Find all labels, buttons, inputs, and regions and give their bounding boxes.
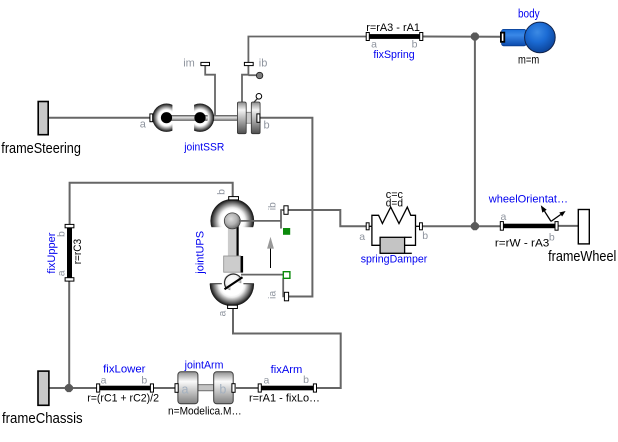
wire frameSteering to jointSSR.a bbox=[48, 117, 150, 119]
svg-text:b: b bbox=[422, 230, 428, 242]
jointArm revolute bar between cylinders bbox=[198, 385, 214, 391]
svg-text:a: a bbox=[359, 231, 365, 243]
jointUPS top ball bbox=[224, 213, 240, 229]
frameWheel fixed frame icon (white) bbox=[578, 210, 589, 244]
svg-text:b: b bbox=[549, 232, 555, 244]
svg-text:r=(rC1 + rC2)/2: r=(rC1 + rC2)/2 bbox=[87, 392, 159, 404]
jointSSR ib connector bbox=[244, 62, 253, 65]
springDamper spring and damper icon bbox=[369, 207, 419, 245]
wheelOrientation fixed rotation bar bbox=[500, 224, 558, 229]
body sphere bbox=[525, 22, 556, 53]
jointUPS green flange square (filled) bbox=[283, 228, 290, 235]
jointSSR revolute cylinder 2 bbox=[251, 102, 260, 134]
fixSpring fixed translation bar bbox=[366, 34, 423, 39]
svg-text:ia: ia bbox=[267, 291, 279, 299]
wire fixSpring.a left and down through ib connector to jointSSR revolute bbox=[242, 37, 366, 104]
junction dot top right bbox=[471, 33, 479, 41]
springDamper connector cap b bbox=[420, 223, 423, 230]
jointUPS internal wire: ball to flange column bbox=[239, 220, 281, 222]
frameChassis fixed frame icon bbox=[38, 371, 49, 405]
svg-text:a: a bbox=[101, 374, 107, 386]
jointSSR spherical joint housing a (cut on right) bbox=[152, 102, 182, 133]
svg-text:fixArm: fixArm bbox=[271, 364, 303, 376]
jointUPS frame_ia connector cap bbox=[284, 292, 288, 301]
svg-text:frameChassis: frameChassis bbox=[2, 410, 83, 427]
jointUPS bottom housing flat edge lines bbox=[210, 283, 222, 285]
wire fixUpper.b up and right to jointUPS.b bbox=[70, 183, 233, 225]
jointUPS bottom universal housing (cut above) bbox=[209, 261, 256, 306]
svg-text:m=m: m=m bbox=[518, 54, 539, 66]
fixLower fixed translation bar bbox=[97, 386, 154, 391]
jointSSR white flange circle bbox=[256, 94, 262, 100]
jointSSR ball b bbox=[194, 112, 205, 123]
svg-text:r=rA1 - fixLo…: r=rA1 - fixLo… bbox=[249, 393, 320, 405]
wire fixSpring.b to junction to body.frame_a bbox=[423, 36, 502, 38]
wire jointSSR.b right, down, to jointUPS.frame_ia bbox=[260, 118, 313, 297]
svg-text:fixSpring: fixSpring bbox=[373, 49, 414, 61]
jointSSR rod to revolute bbox=[205, 115, 238, 120]
jointSSR rod between spherical joints bbox=[167, 115, 201, 120]
wire fixLower.b to jointArm.a bbox=[154, 387, 176, 389]
svg-text:jointArm: jointArm bbox=[184, 360, 224, 372]
wheelOrientation rotation arrows bbox=[541, 205, 566, 221]
svg-text:a: a bbox=[263, 374, 269, 386]
svg-text:fixLower: fixLower bbox=[103, 364, 146, 376]
jointArm connector cap a bbox=[175, 384, 178, 393]
jointUPS connector cap a (bottom) bbox=[228, 305, 238, 308]
fixArm fixed translation bar bbox=[258, 386, 316, 391]
svg-text:springDamper: springDamper bbox=[361, 254, 428, 266]
jointUPS arrow (gray) bbox=[267, 237, 274, 268]
jointUPS frame_ib connector cap bbox=[284, 206, 288, 215]
wire stub ib connector to gray flange circle bbox=[248, 74, 256, 76]
body connector cap bbox=[501, 33, 504, 42]
jointSSR gray flange circle bbox=[256, 72, 262, 78]
svg-text:a: a bbox=[182, 382, 189, 396]
wire jointArm.b to fixArm.a bbox=[236, 387, 258, 389]
springDamper connector cap a bbox=[366, 223, 369, 230]
jointUPS internal wire: universal joint to open flange square bbox=[241, 274, 283, 276]
jointUPS prismatic box black edge bbox=[241, 256, 243, 273]
wire fixArm.b right, up, left to jointUPS.frame_a bbox=[233, 308, 341, 389]
svg-text:a: a bbox=[500, 211, 506, 223]
jointUPS piston rod black edge bbox=[237, 226, 239, 256]
jointSSR revolute cylinder 1 bbox=[237, 102, 246, 134]
svg-text:im: im bbox=[183, 58, 195, 70]
jointArm revolute cylinder b bbox=[214, 372, 234, 404]
springDamper damper cylinder walls bbox=[405, 236, 412, 238]
jointUPS internal wire: frame_ib link bbox=[281, 209, 284, 211]
svg-text:ib: ib bbox=[267, 202, 279, 210]
junction dot springDamper row bbox=[471, 222, 479, 230]
jointArm revolute cylinder a bbox=[178, 372, 198, 404]
jointSSR ball a bbox=[161, 112, 172, 123]
junction dot chassis row bbox=[65, 384, 73, 392]
svg-text:r=rC3: r=rC3 bbox=[72, 239, 84, 264]
jointSSR revolute axis block bbox=[246, 112, 251, 123]
jointUPS connector cap b (top) bbox=[229, 197, 239, 200]
svg-text:a: a bbox=[140, 119, 147, 131]
svg-text:r=rA3 - rA1: r=rA3 - rA1 bbox=[366, 22, 420, 34]
jointUPS top spherical housing (cut below) bbox=[209, 199, 255, 244]
wire fixUpper.a down to chassis junction bbox=[68, 281, 70, 388]
svg-text:frameSteering: frameSteering bbox=[1, 140, 81, 157]
frameSteering fixed frame icon bbox=[38, 102, 48, 135]
wire springDamper.b through junction to wheelOrientation.a bbox=[422, 225, 500, 227]
svg-text:jointSSR: jointSSR bbox=[183, 141, 224, 153]
svg-text:n=Modelica.M…: n=Modelica.M… bbox=[168, 406, 242, 418]
svg-text:frameWheel: frameWheel bbox=[548, 248, 616, 265]
svg-text:b: b bbox=[303, 374, 309, 386]
jointSSR axis line to white circle bbox=[254, 99, 258, 103]
wire jointSSR.im connector down to joint bbox=[205, 66, 215, 118]
springDamper damper piston box bbox=[380, 237, 405, 253]
jointArm connector cap b bbox=[232, 384, 235, 393]
svg-text:jointUPS: jointUPS bbox=[195, 231, 207, 275]
jointSSR spherical joint housing b (cut on left) bbox=[185, 102, 215, 133]
jointSSR im connector bbox=[201, 62, 210, 65]
jointUPS green flange square (open) bbox=[283, 272, 290, 279]
wire frameChassis to fixLower.a bbox=[49, 387, 97, 389]
body cylinder bbox=[502, 29, 526, 45]
svg-text:a: a bbox=[217, 311, 229, 317]
wire junction at top down to springDamper row junction bbox=[474, 37, 476, 227]
svg-text:b: b bbox=[263, 119, 269, 131]
svg-text:wheelOrientat…: wheelOrientat… bbox=[488, 193, 568, 205]
jointUPS prismatic box bbox=[224, 256, 241, 272]
jointSSR connector cap a bbox=[150, 114, 153, 122]
svg-text:d=d: d=d bbox=[386, 198, 403, 210]
wire jointUPS.frame_ib right and down to springDamper.a bbox=[288, 210, 366, 226]
svg-text:fixUpper: fixUpper bbox=[46, 232, 58, 273]
svg-text:b: b bbox=[215, 189, 227, 195]
svg-text:body: body bbox=[518, 8, 540, 20]
jointUPS internal wire: open flange square down to frame_ia bbox=[283, 278, 285, 296]
jointUPS piston rod bbox=[228, 225, 237, 257]
fixUpper fixed translation bar (vertical) bbox=[67, 224, 72, 281]
svg-text:ib: ib bbox=[259, 58, 268, 70]
jointSSR connector cap b bbox=[257, 114, 260, 122]
jointUPS universal ball with cut bbox=[224, 273, 244, 292]
svg-text:b: b bbox=[219, 382, 226, 396]
svg-text:b: b bbox=[141, 374, 147, 386]
wire wheelOrientation.b to frameWheel bbox=[558, 225, 578, 227]
svg-text:r=rW - rA3: r=rW - rA3 bbox=[495, 238, 549, 250]
